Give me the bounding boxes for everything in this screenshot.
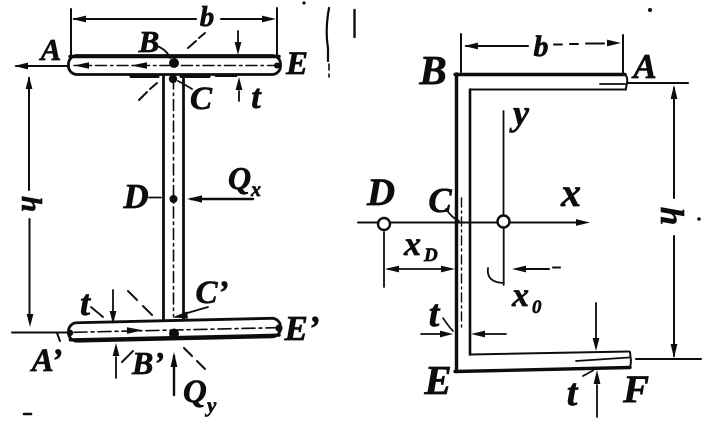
svg-text:E: E	[423, 357, 451, 403]
leader from t	[91, 307, 103, 317]
h bottom arrowhead	[27, 314, 34, 327]
svg-text:D: D	[366, 171, 395, 214]
web right edge	[182, 75, 185, 319]
x0 extension line below centroid	[503, 229, 505, 285]
dimension b extension line right (right figure)	[622, 35, 624, 73]
top flange center dash-dot line	[74, 65, 276, 67]
b left arrowhead	[464, 43, 478, 50]
dimension b line with dashes	[466, 44, 578, 46]
bottom flange center dash-dot line	[74, 328, 276, 333]
channel bottom flange inner edge	[470, 352, 629, 355]
channel bottom flange outer edge	[455, 368, 630, 372]
bottom flange right end dot	[275, 324, 282, 331]
svg-text:A: A	[39, 32, 62, 67]
channel bottom flange tip cap	[629, 352, 632, 368]
stray dot top middle	[302, 1, 305, 4]
svg-text:A’: A’	[30, 343, 63, 379]
channel top flange outer edge	[455, 73, 625, 76]
shear center D circle	[378, 218, 390, 230]
leader from C to web-top dot	[178, 81, 192, 89]
svg-text:D: D	[122, 177, 148, 216]
channel bottom flange tip taper line	[576, 358, 629, 362]
svg-text:Q: Q	[228, 160, 251, 196]
bottom flange left end dot	[67, 330, 74, 337]
svg-text:x: x	[250, 179, 261, 201]
flange thickness t up arrow	[596, 385, 598, 417]
force Qy arrow	[173, 356, 175, 395]
leader tick from t to arrow	[583, 371, 593, 377]
stray dot top right	[648, 8, 652, 12]
shear-flow arrowhead in top flange at left tip	[74, 62, 89, 69]
dashed ray upper-right from B	[188, 33, 205, 48]
svg-text:B: B	[138, 24, 160, 59]
channel top flange inner edge	[470, 89, 626, 91]
svg-text:t: t	[251, 79, 262, 116]
leader dash from D to web	[149, 197, 161, 199]
xD extension line below D	[383, 232, 385, 287]
svg-text:Q: Q	[183, 374, 207, 410]
x axis arrowhead	[576, 219, 590, 226]
dot after h	[697, 217, 701, 221]
dimension b extension line left (right figure)	[460, 34, 462, 72]
web thickness right arrow	[484, 333, 506, 335]
dashed ray lower-left from C	[139, 83, 157, 100]
xD right arrowhead	[441, 266, 455, 273]
svg-text:A: A	[631, 47, 656, 86]
force Qx arrow	[191, 198, 253, 200]
top flange heavy top edge	[70, 55, 279, 58]
xD left arrowhead	[385, 266, 399, 273]
h top arrowhead	[671, 85, 678, 99]
svg-text:t: t	[80, 283, 91, 323]
svg-text:C: C	[190, 81, 213, 117]
stray scan mark: wavy vertical line between figures	[327, 8, 329, 61]
dimension b extension line left	[70, 9, 72, 56]
stray dash bottom left	[24, 413, 31, 416]
dimension b right arrowhead	[262, 16, 276, 23]
t top arrow	[112, 290, 114, 312]
svg-text:t: t	[429, 293, 441, 335]
node B dot (flange mid point)	[169, 58, 179, 68]
h bottom arrowhead	[671, 344, 678, 358]
channel web inner edge	[469, 90, 472, 355]
svg-text:C: C	[428, 181, 452, 220]
channel top flange tip taper line	[600, 83, 625, 85]
top flange right end dot	[274, 63, 280, 69]
shear-flow arrowhead in top flange mid-left	[131, 62, 147, 69]
x axis line	[358, 222, 578, 224]
node B' dot (bottom junction)	[169, 329, 179, 339]
centroid circle	[498, 216, 510, 228]
leader from C to web	[446, 209, 459, 221]
svg-text:x: x	[511, 277, 529, 314]
web left edge	[162, 75, 165, 319]
svg-text:C’: C’	[196, 275, 229, 311]
svg-text:b: b	[534, 30, 549, 63]
svg-text:x: x	[560, 170, 581, 215]
node A leader line with arrow	[16, 65, 69, 67]
leader from t to web	[443, 318, 453, 331]
flange thickness t down arrow	[595, 303, 597, 340]
svg-text:x: x	[403, 226, 421, 263]
dimension b line	[74, 18, 271, 20]
stray scan mark dashes below wavy line	[328, 64, 330, 77]
svg-text:B’: B’	[131, 345, 164, 381]
t bottom arrow	[115, 357, 117, 378]
web center dash-dot line	[173, 78, 175, 316]
dimension h line (left)	[28, 78, 31, 320]
bottom flange group (slightly skewed as in scan)	[67, 318, 283, 341]
svg-text:B: B	[418, 47, 446, 93]
dashed ray upper-left from B'	[128, 291, 152, 315]
svg-text:F: F	[622, 368, 649, 411]
svg-text:0: 0	[532, 297, 542, 318]
flange thickness t arrows (right, near E)	[237, 31, 239, 42]
leader from B to dot	[157, 46, 170, 58]
svg-text:D: D	[423, 245, 438, 266]
svg-text:E’: E’	[284, 309, 320, 348]
svg-text:E: E	[285, 46, 308, 82]
top flange heavy under-edge dashes	[131, 76, 236, 77]
shear-flow arrowhead in bottom flange pointing right	[127, 327, 143, 334]
stray scan mark: vertical bar	[353, 10, 355, 37]
web thickness left arrow	[421, 333, 441, 335]
x0 hook curve	[488, 268, 503, 283]
channel web center dash-dot line	[461, 198, 463, 330]
svg-text:h: h	[653, 207, 689, 225]
bottom flange outline	[68, 318, 280, 341]
bottom flange heavy bottom edge	[70, 335, 279, 340]
dashed ray lower-right from B'	[184, 348, 205, 369]
svg-text:y: y	[509, 93, 530, 133]
h extension line top right	[627, 82, 688, 84]
h dimension line (right)	[673, 88, 675, 356]
dimension b left arrowhead	[72, 16, 86, 23]
channel web outer edge	[455, 74, 458, 372]
h top arrowhead	[26, 76, 33, 89]
dimension b extension line right	[276, 8, 278, 64]
arrow from C' to bottom junction	[184, 307, 208, 314]
node A' baseline	[12, 333, 68, 342]
svg-text:b: b	[200, 1, 215, 33]
y axis line	[503, 111, 505, 215]
svg-text:h: h	[15, 196, 47, 212]
channel top flange tip cap	[625, 75, 627, 89]
x0 arrow pointing left	[517, 268, 560, 270]
node C dot (web top point)	[169, 75, 177, 83]
node D dot on web	[170, 195, 178, 203]
svg-text:t: t	[567, 372, 579, 414]
top flange outline	[69, 56, 281, 75]
xD dimension line	[388, 268, 450, 270]
b right arrowhead and tail	[586, 43, 604, 45]
dashed ray lower-left from B'	[122, 351, 133, 362]
h extension line bottom right	[636, 358, 701, 360]
